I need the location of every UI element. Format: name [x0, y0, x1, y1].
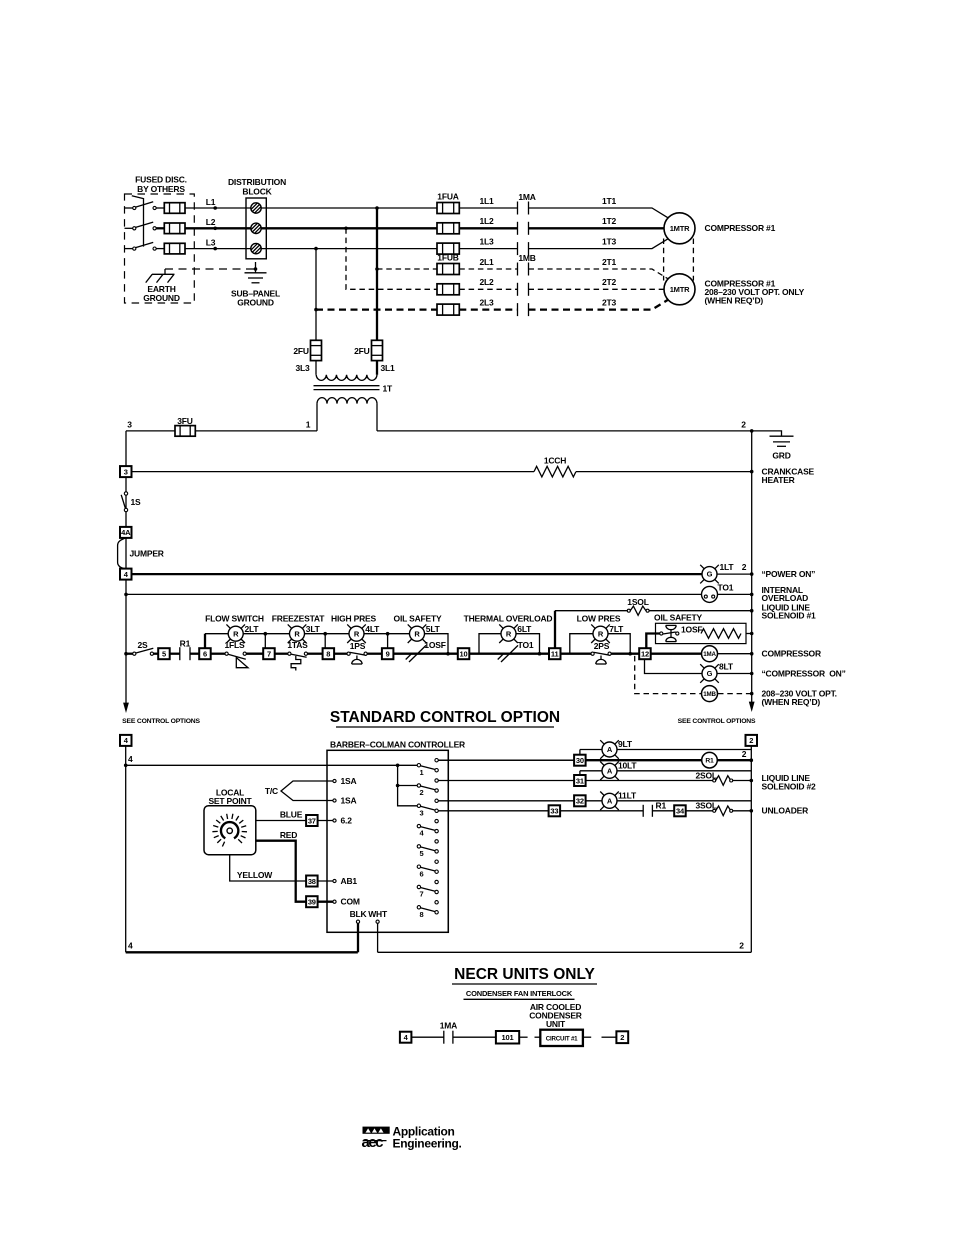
node lamp row above box7	[264, 632, 268, 636]
wire BLUE	[256, 820, 333, 822]
wire box31 to 2SOL	[586, 780, 713, 782]
svg-text:3: 3	[420, 808, 424, 817]
wire box4 to 1MA contact	[411, 1036, 443, 1038]
svg-text:L1: L1	[206, 197, 216, 207]
pilot light 2LT (R)	[226, 624, 245, 643]
svg-text:A: A	[607, 796, 613, 805]
terminal 1SA	[333, 779, 336, 782]
pilot light 8LT (G) COMPRESSOR ON	[700, 664, 719, 683]
svg-text:1MB: 1MB	[518, 253, 535, 263]
svg-text:“COMPRESSOR ON”: “COMPRESSOR ON”	[762, 669, 846, 679]
fuse (fused disc.) L1	[164, 203, 185, 214]
wire 1SOL row left	[555, 610, 628, 612]
wire 6LT drop	[516, 634, 540, 654]
svg-text:1L1: 1L1	[479, 196, 494, 206]
svg-text:1T: 1T	[383, 383, 394, 393]
svg-text:4A: 4A	[121, 528, 131, 537]
wire switch to fuse L3	[156, 248, 164, 250]
wire TO1 to rail	[718, 593, 752, 595]
solenoid 2SOL	[713, 776, 733, 786]
left rail (lower)	[125, 746, 127, 952]
fuse 1FUA element 1L1	[437, 203, 459, 214]
node box 101	[496, 1031, 519, 1044]
overload device TO1	[702, 586, 718, 602]
wire stub to circuit box	[535, 1036, 541, 1038]
wire R1 to box34	[652, 810, 674, 812]
node box 4 (NECR)	[400, 1032, 412, 1043]
svg-text:30: 30	[576, 756, 584, 765]
svg-text:1MA: 1MA	[703, 651, 716, 658]
wire internal overload row	[126, 593, 702, 595]
svg-text:NECR UNITS ONLY: NECR UNITS ONLY	[454, 966, 595, 983]
node box 2 (lower)	[746, 735, 758, 746]
wire box7 to 1TAS	[275, 653, 288, 655]
wire power-on row (bold)	[131, 573, 702, 575]
controller switch 8	[417, 901, 438, 919]
node R1 row right	[750, 758, 754, 762]
wire switch to fuse L1	[156, 207, 164, 209]
svg-text:G: G	[707, 570, 713, 579]
svg-text:1T2: 1T2	[602, 216, 617, 226]
node L3 terminal dot	[213, 247, 217, 251]
svg-text:THERMAL OVERLOAD: THERMAL OVERLOAD	[464, 613, 553, 623]
wire R1 coil to rail (bold)	[717, 759, 751, 761]
solenoid 3SOL	[713, 806, 733, 816]
node box 30	[574, 755, 586, 766]
wire BLK (bold)	[357, 923, 359, 952]
svg-text:2: 2	[620, 1033, 624, 1042]
node L1 terminal dot	[213, 206, 217, 210]
wire box101 stub	[519, 1036, 527, 1038]
wire 2PS to box12	[611, 653, 639, 655]
svg-text:12: 12	[641, 650, 649, 659]
svg-text:1MTR: 1MTR	[670, 285, 690, 294]
svg-text:HEATER: HEATER	[762, 475, 795, 485]
svg-text:RED: RED	[280, 830, 297, 840]
node box 4 (lower)	[120, 735, 132, 746]
controller switch 5	[417, 840, 438, 858]
svg-text:1MB: 1MB	[703, 691, 716, 698]
coil 1MB (208-230V contactor)	[702, 686, 718, 702]
left rail	[125, 431, 127, 703]
wire 11LT to rail	[617, 800, 752, 802]
bottom rail net4 (bold)	[126, 951, 358, 953]
flow switch 1FLS	[225, 652, 248, 668]
wire box9 to box10 (through 1OSF)	[393, 653, 457, 655]
solenoid 1SOL	[627, 606, 649, 615]
svg-text:2: 2	[749, 736, 753, 745]
svg-text:2T2: 2T2	[602, 277, 617, 287]
wire 1L1 fuse to contactor	[459, 207, 517, 209]
svg-text:5LT: 5LT	[426, 624, 441, 634]
wire box30 riser	[579, 750, 581, 756]
pilot light 7LT riser	[570, 634, 593, 654]
svg-text:R: R	[506, 629, 512, 638]
wire 10LT to rail	[617, 770, 752, 772]
terminal 1SA	[333, 799, 336, 802]
svg-text:9: 9	[386, 650, 390, 659]
wire 8LT to rail	[717, 673, 752, 675]
svg-text:FUSED DISC.: FUSED DISC.	[135, 175, 187, 185]
svg-text:7: 7	[420, 890, 424, 899]
node 3SOL right	[750, 809, 754, 813]
pilot light 4LT (R)	[347, 624, 366, 643]
terminal AB1	[333, 879, 336, 882]
svg-text:1FUA: 1FUA	[437, 191, 458, 201]
wire drop to box9	[387, 634, 389, 649]
svg-text:GROUND: GROUND	[237, 298, 274, 308]
node left rail control tap	[124, 652, 128, 656]
node box 7	[263, 648, 275, 659]
wire 1PS to box9	[367, 653, 382, 655]
contact TO1 (rail)	[498, 645, 518, 662]
bottom rail net2	[378, 951, 752, 953]
wire drop to 2FU right (bold)	[376, 208, 378, 340]
wire 10LT row	[580, 770, 602, 772]
svg-text:R1: R1	[656, 800, 667, 810]
svg-text:2L3: 2L3	[479, 297, 494, 307]
right rail (lower)	[750, 746, 752, 952]
node lamp-drop before box12	[628, 652, 632, 656]
pilot light 3LT (R)	[288, 624, 307, 643]
svg-text:STANDARD CONTROL OPTION: STANDARD CONTROL OPTION	[330, 709, 560, 726]
wire feeder to sw2	[398, 785, 418, 787]
pressure switch 1PS	[347, 652, 367, 664]
wire feeder net4	[126, 764, 418, 766]
contactor 1MB pole 2L1	[518, 263, 529, 276]
Barber-Colman controller enclosure	[327, 750, 448, 932]
svg-text:5: 5	[420, 849, 424, 858]
svg-text:LOW PRES: LOW PRES	[577, 613, 621, 623]
svg-text:aec: aec	[362, 1134, 384, 1151]
contact R1 (unloader)	[643, 805, 652, 817]
node lamp row above box9	[386, 632, 390, 636]
svg-text:G: G	[707, 669, 713, 678]
wire sw1 output	[438, 759, 574, 761]
wire 1L3 fuse to contactor	[459, 248, 517, 250]
svg-text:37: 37	[308, 816, 316, 825]
svg-text:SEE CONTROL OPTIONS: SEE CONTROL OPTIONS	[122, 718, 200, 725]
node box 39	[306, 896, 318, 907]
wire 2L3 fuse to contactor	[459, 308, 517, 310]
svg-text:4LT: 4LT	[365, 624, 380, 634]
node 1MB right	[750, 692, 754, 696]
node box 8	[323, 648, 335, 659]
svg-text:7: 7	[267, 650, 271, 659]
oil safety enclosure	[656, 623, 747, 643]
svg-text:2L2: 2L2	[479, 277, 494, 287]
wire secondary right lead	[376, 404, 378, 431]
wire R1 to box6	[190, 653, 199, 655]
svg-text:L2: L2	[206, 217, 216, 227]
svg-text:8: 8	[420, 910, 424, 919]
svg-text:38: 38	[308, 877, 316, 886]
node box 38	[306, 876, 318, 887]
node 2 junction	[750, 429, 754, 433]
fuse 1FUB element 2L1	[437, 264, 459, 275]
svg-text:1SA: 1SA	[341, 795, 357, 805]
pilot light 9LT (A)	[600, 740, 619, 759]
svg-text:R: R	[233, 629, 239, 638]
svg-text:YELLOW: YELLOW	[237, 870, 273, 880]
svg-text:11: 11	[551, 650, 559, 659]
node box 32	[574, 795, 586, 806]
wire box34 to 3SOL	[686, 810, 713, 812]
svg-text:2S: 2S	[138, 640, 149, 650]
wire fuse to distribution block L2	[185, 227, 251, 229]
svg-text:2: 2	[741, 420, 746, 430]
svg-text:CONDENSER FAN INTERLOCK: CONDENSER FAN INTERLOCK	[466, 989, 573, 998]
svg-text:COMPRESSOR: COMPRESSOR	[762, 649, 821, 659]
svg-text:1L3: 1L3	[479, 236, 494, 246]
oil safety heater 1OSF	[660, 625, 679, 641]
svg-text:2L1: 2L1	[479, 257, 494, 267]
node compressor row right	[750, 652, 754, 656]
node tap 3L1 on L1	[375, 206, 379, 210]
svg-text:6.2: 6.2	[341, 815, 353, 825]
wire lamp row segment A	[205, 633, 228, 635]
node internal-overload right	[750, 593, 754, 597]
svg-text:1PS: 1PS	[350, 641, 366, 651]
distribution block body	[246, 198, 266, 259]
svg-text:HIGH PRES: HIGH PRES	[331, 613, 376, 623]
wire lamp row segment B	[243, 633, 289, 635]
svg-text:10LT: 10LT	[618, 760, 637, 770]
svg-text:TO1: TO1	[518, 640, 534, 650]
pilot light 6LT (R)	[499, 624, 518, 643]
svg-text:UNIT: UNIT	[546, 1019, 566, 1029]
node box 5	[158, 648, 170, 659]
controller switch 1	[417, 759, 438, 777]
svg-text:COM: COM	[341, 897, 360, 907]
node 2L1 tap	[375, 267, 379, 271]
node tap on L2	[344, 227, 348, 231]
svg-text:3L3: 3L3	[295, 363, 310, 373]
svg-text:7LT: 7LT	[609, 624, 624, 634]
svg-text:1L2: 1L2	[479, 216, 494, 226]
wire 1T2 to motor	[529, 227, 665, 229]
wire 2FU left to primary	[315, 361, 317, 375]
logo AEC mark	[362, 1127, 390, 1151]
svg-text:JUMPER: JUMPER	[130, 548, 164, 558]
svg-text:4: 4	[420, 829, 425, 838]
wire into disconnect switch L3	[125, 248, 133, 250]
svg-text:3: 3	[127, 420, 132, 430]
wire 2L2 tap (dashed)	[346, 228, 437, 289]
terminal WHT	[376, 920, 379, 923]
wire fuse to distribution block L1	[185, 207, 251, 209]
svg-text:A: A	[607, 766, 613, 775]
wire L1 block to 1FUA	[261, 207, 437, 209]
pilot light 10LT (A)	[600, 762, 619, 781]
svg-text:34: 34	[676, 807, 685, 816]
contactor 1MA pole 1L2	[518, 222, 529, 235]
svg-text:R1: R1	[705, 757, 714, 764]
svg-text:GRD: GRD	[772, 451, 790, 461]
svg-text:2T3: 2T3	[602, 297, 617, 307]
svg-text:2T1: 2T1	[602, 257, 617, 267]
svg-text:6LT: 6LT	[517, 624, 532, 634]
wire heater feed (bold drop to box12)	[646, 634, 660, 649]
svg-text:5: 5	[162, 650, 166, 659]
svg-text:2FU: 2FU	[354, 346, 370, 356]
node feeder tap	[124, 764, 128, 768]
svg-text:1SA: 1SA	[341, 776, 357, 786]
node power-on right	[750, 572, 754, 576]
chassis ground GRD	[752, 431, 794, 446]
wire box10 to box11 (through TO1)	[469, 653, 549, 655]
wire fuse to distribution block L3	[185, 248, 251, 250]
node box 34	[674, 805, 686, 816]
contact 1MA (condenser interlock)	[444, 1031, 453, 1044]
svg-text:R: R	[294, 629, 300, 638]
node crankcase right	[750, 470, 754, 474]
switch gang linkage	[132, 196, 144, 247]
wire 1MB to rail (dashed)	[718, 693, 752, 695]
sub-panel ground symbol	[245, 273, 267, 283]
air cooled condenser unit CIRCUIT #1 box	[540, 1030, 583, 1046]
wire box30 to R1 coil (bold)	[586, 759, 702, 761]
svg-text:FLOW SWITCH: FLOW SWITCH	[205, 613, 264, 623]
pilot light 6LT riser	[479, 634, 501, 654]
node box 10	[458, 648, 470, 659]
node 2SOL right	[750, 779, 754, 783]
svg-text:T/C: T/C	[265, 786, 278, 796]
svg-text:1SOL: 1SOL	[627, 597, 648, 607]
svg-text:1OSF: 1OSF	[424, 640, 445, 650]
node 1SOL right	[750, 609, 754, 613]
wire 1FLS to box7	[246, 653, 263, 655]
svg-text:2: 2	[420, 788, 424, 797]
dashed link between motors right	[692, 239, 694, 281]
wire sw3 lower output	[438, 810, 548, 812]
wire circuit box stub	[583, 1036, 591, 1038]
svg-text:1: 1	[420, 768, 424, 777]
svg-text:1FUB: 1FUB	[437, 253, 458, 263]
svg-text:R: R	[414, 629, 420, 638]
controller switch 2	[417, 779, 438, 797]
wire 1TAS to box8	[308, 653, 323, 655]
wire into disconnect switch L1	[125, 207, 133, 209]
node 8LT right	[750, 672, 754, 676]
node left rail TO1 tap	[124, 593, 128, 597]
sub-panel ground stem	[255, 262, 257, 273]
fuse 1FUB element 2L3	[437, 304, 459, 315]
pilot light 11LT (A)	[600, 792, 619, 811]
fuse 2FU left	[311, 340, 322, 360]
svg-text:1MA: 1MA	[440, 1021, 457, 1031]
svg-text:“POWER ON”: “POWER ON”	[762, 569, 816, 579]
wire 2T2 to motor	[529, 288, 665, 290]
svg-text:2: 2	[742, 562, 747, 572]
wire 2L3 tap (dashed bold)	[316, 308, 437, 310]
wire YELLOW	[230, 855, 333, 881]
pilot light 5LT (R)	[408, 624, 427, 643]
svg-text:AB1: AB1	[341, 876, 358, 886]
svg-text:2FU: 2FU	[293, 346, 309, 356]
svg-text:10: 10	[460, 650, 468, 659]
svg-text:BARBER–COLMAN CONTROLLER: BARBER–COLMAN CONTROLLER	[330, 740, 465, 750]
svg-text:3LT: 3LT	[306, 624, 321, 634]
svg-text:L3: L3	[206, 237, 216, 247]
svg-text:1CCH: 1CCH	[544, 456, 566, 466]
terminal BLK	[356, 920, 359, 923]
wire node1 rail (left)	[126, 430, 317, 432]
svg-text:6: 6	[203, 650, 207, 659]
wire rail to 2S	[126, 653, 133, 655]
disconnect switch pole L3	[133, 242, 157, 250]
svg-text:FREEZESTAT: FREEZESTAT	[272, 613, 325, 623]
svg-text:Engineering.: Engineering.	[393, 1136, 462, 1150]
svg-text:UNLOADER: UNLOADER	[762, 806, 809, 816]
wire 2L1 fuse to contactor	[459, 268, 517, 270]
wire box6 to 1FLS	[211, 653, 225, 655]
node box 12	[639, 648, 651, 659]
svg-text:8LT: 8LT	[719, 661, 734, 671]
left rail arrow	[123, 703, 129, 713]
fuse (fused disc.) L2	[164, 223, 185, 234]
svg-text:OIL SAFETY: OIL SAFETY	[394, 613, 442, 623]
svg-text:39: 39	[308, 898, 316, 907]
disconnect switch pole L1	[133, 202, 157, 210]
condenser label underline	[464, 998, 575, 1000]
contact 1OSF (rail)	[406, 645, 426, 662]
switch 1S	[121, 492, 128, 512]
fuse 1FUA element 1L2	[437, 223, 459, 234]
svg-text:R: R	[354, 629, 360, 638]
svg-text:2: 2	[742, 749, 747, 759]
node 2L3 tap	[314, 308, 318, 312]
wire 3SOL to rail	[733, 810, 752, 812]
svg-text:31: 31	[576, 776, 584, 785]
wire 2S to box5	[153, 653, 158, 655]
transformer 1T core	[314, 385, 380, 387]
pilot light 7LT (R)	[591, 624, 610, 643]
node box 31	[574, 775, 586, 786]
wire sw3 upper output	[438, 800, 574, 802]
thermocouple T/C wires	[281, 781, 333, 801]
coil 1MA compressor contactor	[702, 646, 718, 662]
svg-text:BLOCK: BLOCK	[242, 186, 272, 196]
svg-text:1MA: 1MA	[518, 192, 535, 202]
wire sw2 output	[438, 780, 574, 782]
controller switch 6	[417, 860, 438, 878]
contactor 1MB pole 2L2	[518, 283, 529, 296]
wire 1T3 to motor	[529, 239, 668, 249]
wire crankcase heater row	[126, 471, 534, 473]
svg-text:11LT: 11LT	[618, 790, 637, 800]
svg-text:4: 4	[128, 754, 133, 764]
switch 2S	[133, 648, 154, 655]
svg-text:R: R	[598, 629, 604, 638]
svg-text:GROUND: GROUND	[143, 293, 180, 303]
controller switch 4	[417, 819, 438, 837]
right rail	[751, 431, 753, 702]
wire box32 to 11LT	[586, 800, 602, 802]
wire 1MB drop (dashed)	[635, 656, 701, 694]
node lamp-drop before box10	[446, 652, 450, 656]
node box 3	[120, 466, 132, 477]
wire box11 to 2PS	[561, 653, 592, 655]
right rail arrow	[749, 702, 755, 712]
wire riser box6 to lamp row (bold)	[204, 634, 206, 649]
svg-text:1OSF: 1OSF	[681, 624, 702, 634]
svg-text:CIRCUIT #1: CIRCUIT #1	[546, 1036, 578, 1043]
wire 2L2 fuse to contactor	[459, 288, 517, 290]
svg-text:A: A	[607, 745, 613, 754]
svg-text:1T1: 1T1	[602, 196, 617, 206]
distribution block lug at y=208.0	[251, 203, 261, 213]
